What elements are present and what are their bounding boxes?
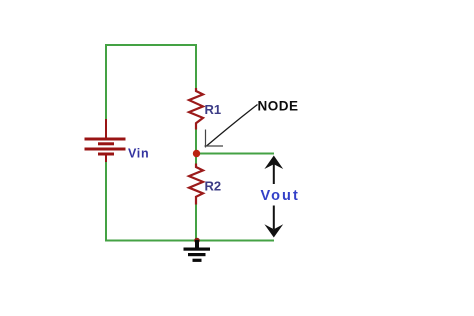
svg-text:Vout: Vout [261,188,298,204]
svg-text:R2: R2 [205,179,222,194]
svg-text:R1: R1 [205,102,222,117]
svg-text:Vin: Vin [128,147,149,161]
svg-text:NODE: NODE [258,99,299,114]
